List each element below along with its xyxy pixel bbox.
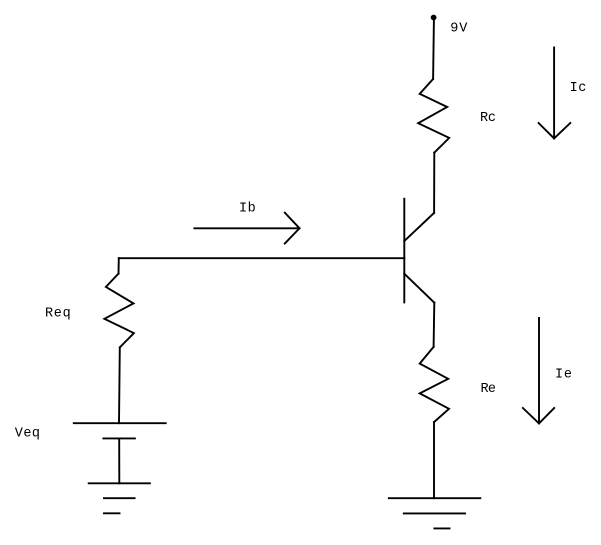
arrow Ib [194,213,299,244]
ground right [389,498,481,528]
arrow Ie [523,318,554,423]
node 9V supply terminal dot [431,15,437,21]
svg-text:Ic: Ic [570,81,587,96]
wire corner from base wire down to Req [118,258,120,273]
wire from Re bottom to right ground [433,422,435,498]
resistor Rc [418,79,449,153]
wire from emitter to Re [433,303,436,347]
transistor Q1 base bar [403,199,405,303]
svg-text:Ib: Ib [239,202,256,217]
transistor Q1 collector lead [404,213,434,241]
resistor Re [420,347,449,422]
svg-text:Rc: Rc [480,111,496,126]
ground left [89,483,150,513]
svg-text:9V: 9V [450,21,468,36]
svg-text:Re: Re [481,382,497,397]
svg-text:Veq: Veq [15,427,40,442]
wire base: node B to transistor base [119,257,405,259]
resistor Req [104,274,133,348]
battery Veq positive plate [74,422,166,424]
wire from Req bottom to Veq [118,347,121,423]
battery Veq negative plate [103,437,134,439]
wire from Veq to left ground [118,438,120,483]
arrow Ic [539,47,571,138]
wire from Rc bottom to collector [433,153,435,213]
transistor Q1 emitter lead [404,274,434,303]
wire from 9V node to Rc top [432,20,435,79]
svg-text:Req: Req [45,307,71,322]
svg-text:Ie: Ie [555,368,572,383]
